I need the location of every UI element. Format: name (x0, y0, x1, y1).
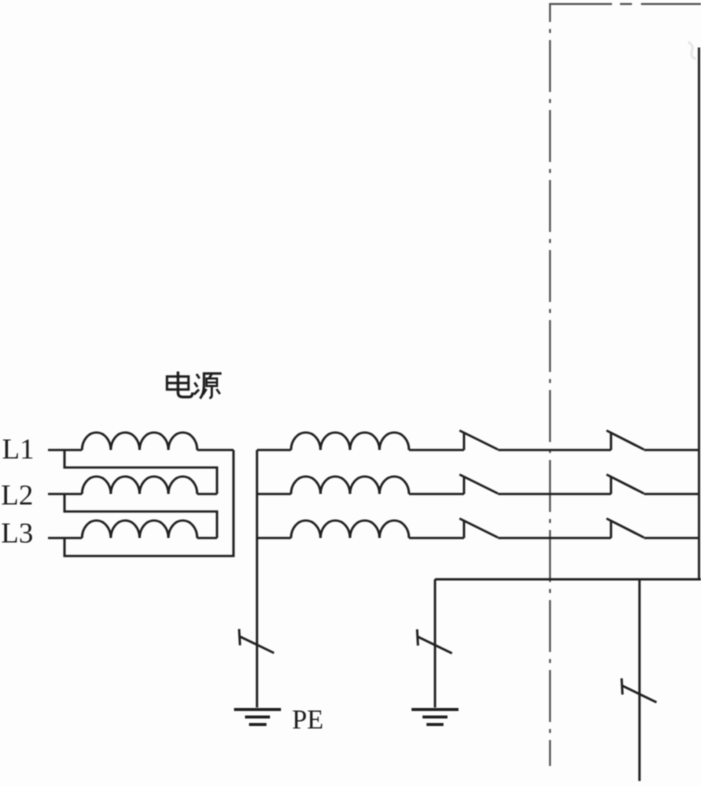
wire QS3 to QS6 (498, 537, 611, 539)
switch QS6 phase L3 (607, 519, 644, 539)
wire earthing conductor middle (434, 579, 436, 707)
disconnect link X2 on middle earthing conductor (417, 629, 452, 653)
wire delta drop L3 (65, 450, 234, 556)
switch QS3 phase L3 (460, 519, 498, 539)
wire W3 output (197, 537, 217, 539)
switch QS5 phase L2 (607, 475, 644, 495)
wire W6 to QS3 (409, 537, 464, 539)
wire L1 stub (48, 449, 82, 451)
wire QS1 to QS4 (498, 449, 611, 451)
winding W4 series reactor phase L1 (291, 433, 409, 450)
wire QS4 to panel (644, 449, 699, 451)
svg-text:L2: L2 (1, 480, 33, 512)
wire W5 to QS2 (409, 493, 464, 495)
svg-text:L3: L3 (1, 518, 33, 550)
svg-text:L1: L1 (2, 434, 34, 466)
wire star L3 lead (257, 537, 291, 539)
wire QS5 to panel (644, 493, 699, 495)
wire L2 stub (48, 493, 82, 495)
wire delta drop L2 (65, 494, 218, 538)
winding W1 primary phase L1 (82, 433, 197, 451)
wire earthing conductor right (638, 579, 640, 781)
winding W6 series reactor phase L3 (291, 521, 409, 539)
switch QS2 phase L2 (460, 475, 498, 495)
wire PEN bus horizontal (435, 578, 701, 580)
faint print artifact top right (688, 42, 696, 59)
switch QS4 phase L1 (607, 431, 644, 451)
wire QS2 to QS5 (498, 493, 611, 495)
winding W3 primary phase L3 (82, 521, 197, 539)
right panel edge (cropped box) (698, 48, 700, 580)
wire QS6 to panel (644, 537, 699, 539)
disconnect link X3 on right earthing conductor (622, 678, 657, 702)
disconnect link X1 on neutral bus (239, 629, 274, 653)
winding W5 series reactor phase L2 (291, 477, 409, 495)
node N neutral bus (256, 450, 258, 708)
wire delta drop L1 (65, 450, 218, 494)
wire W1 output (197, 449, 233, 451)
winding W2 primary phase L2 (82, 476, 197, 494)
wire W2 output (197, 493, 217, 495)
wire W4 to QS1 (409, 449, 464, 451)
switch QS1 phase L1 (460, 431, 498, 451)
wire star L1 lead (257, 449, 291, 451)
label 源 (of 电源 power source) (194, 374, 222, 399)
wire L3 stub (48, 537, 82, 539)
ground electrode E1 (PE) (234, 710, 281, 725)
svg-text:PE: PE (292, 705, 324, 735)
boundary dash-dot enclosure top edge (549, 3, 701, 5)
boundary dash-dot enclosure left edge (549, 4, 551, 766)
wire star L2 lead (257, 493, 291, 495)
ground electrode E2 (412, 710, 459, 725)
label 电 (of 电源 power source) (167, 372, 193, 398)
